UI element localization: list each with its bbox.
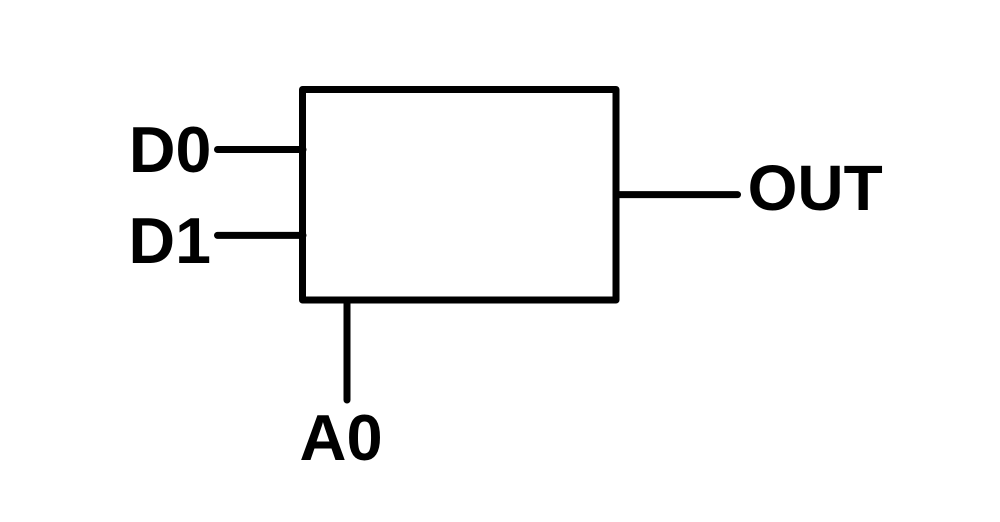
label D0 [129,118,211,183]
mux body U1 [303,90,617,301]
label D1 [129,209,211,274]
label A0 [300,405,383,470]
wire OUT output [616,191,738,198]
wire D1 input [218,232,304,239]
wire D0 input [218,146,304,153]
wire A0 select [344,300,351,400]
label OUT [748,156,883,220]
